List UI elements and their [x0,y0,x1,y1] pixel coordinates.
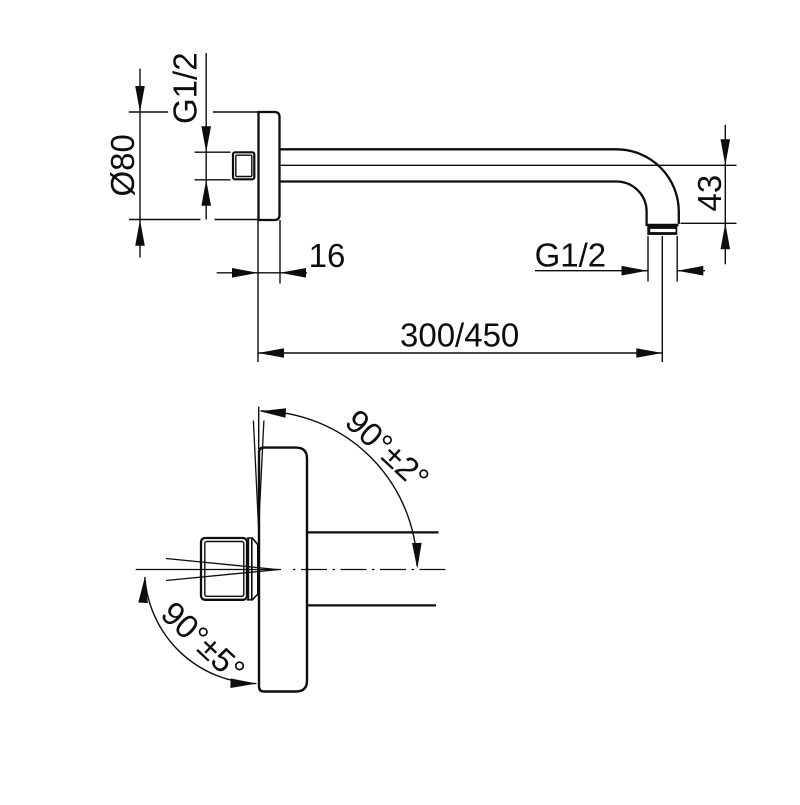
dimension G1/2 (outlet thread) : extension lines [648,236,677,282]
axis centre line (plan view) [136,569,281,571]
dimension G1/2 (inlet) : arrow down [201,126,211,152]
svg-text:G1/2: G1/2 [535,237,607,274]
vertical extension line above flange [258,407,260,449]
outlet nozzle (aerator ring) [647,226,677,235]
dimension 16 : arrow right [232,268,258,278]
shower arm tube (horizontal run, bend and drop) [280,149,679,224]
dimension G1/2 (inlet) : dimension line [205,53,207,220]
wall flange plate (side view) [259,112,280,220]
threaded nipple (plan view) body [201,538,247,600]
dimension Ø80 : extension line bottom [129,219,258,221]
dimension 300/450 : dimension line [258,352,662,354]
dimension 300/450 : arrow left [258,348,284,358]
tube end face line [646,224,679,226]
svg-text:G1/2: G1/2 [167,52,204,124]
tolerance fan lines (horizontal +/-5deg) [166,559,278,581]
dimension Ø80 : dimension line [139,69,141,258]
dimension Ø80 : extension line top [129,111,259,113]
dimension 16 : arrow left [280,268,306,278]
dimension G1/2 (outlet) : dimension line right [677,270,705,272]
angle arc 90+/-2 : arrow at top (points left) [259,406,286,417]
svg-text:300/450: 300/450 [400,316,519,353]
angle arc 90deg +/-2deg [261,411,418,566]
angle arc 90+/-5 : arrow at left (points up) [138,577,149,604]
tolerance fan lines (vertical +/-2deg) [253,421,264,529]
angle arc 90+/-5 : arrow at bottom (points right) [230,678,256,688]
wall flange plate (plan view) [259,448,307,692]
svg-text:43: 43 [691,175,728,212]
dimension G1/2 (outlet) : arrow right [622,266,648,276]
angle arc 90deg +/-5deg [145,577,257,684]
dimension G1/2 (outlet) : arrow left [677,266,703,276]
dimension 43 : arrow down [721,139,731,165]
threaded nipple (plan view) thread relief lines [247,538,258,600]
dimension G1/2 (inlet) : arrow up [201,180,211,206]
dimension Ø80 : arrow down [135,86,145,112]
svg-text:Ø80: Ø80 [104,134,141,196]
dimension G1/2 (outlet) : dimension line left [535,270,648,272]
dimension 16 (flange thickness) : extension lines [258,220,280,363]
tube axis line (thin) [280,164,737,166]
threaded nipple (side view) [233,152,254,179]
dimension 16 : dimension line [217,272,307,274]
dimension 300/450 : arrow right [636,348,662,358]
svg-text:16: 16 [309,237,346,274]
angle arc 90+/-2 : arrow at bottom (points down) [412,543,422,569]
dimension 300/450 (arm length) : extension line right (tube centre) [661,236,663,362]
dimension Ø80 : arrow up [135,220,145,246]
tube (plan view) [307,532,439,605]
dimension 43 : arrow up [721,223,731,249]
dimension G1/2 (inlet thread) : extension lines [195,152,231,180]
dimension 43 : dimension line [724,125,726,264]
dimension 43 (drop height) : extension line bottom [681,222,737,224]
